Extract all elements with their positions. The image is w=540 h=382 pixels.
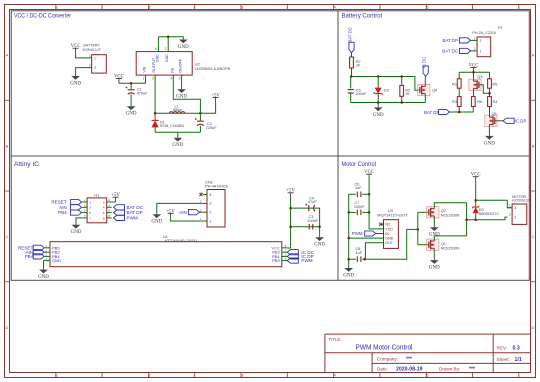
svg-text:D2: D2 (384, 88, 389, 92)
svg-text:VIN: VIN (143, 66, 147, 72)
svg-text:2: 2 (209, 211, 211, 215)
svg-text:220uF: 220uF (206, 126, 217, 130)
svg-text:1: 1 (94, 56, 96, 60)
svg-text:PH-2A_C2319: PH-2A_C2319 (472, 31, 496, 35)
svg-text:P1: P1 (498, 26, 503, 30)
svg-text:LM2596SX-5.0/NOPB: LM2596SX-5.0/NOPB (195, 67, 231, 71)
svg-text:R3: R3 (452, 100, 457, 104)
svg-text:Q3: Q3 (477, 75, 482, 79)
svg-text:0.3: 0.3 (513, 345, 520, 351)
svg-text:GND: GND (343, 273, 354, 278)
svg-text:A: A (532, 53, 535, 58)
svg-text:2K: 2K (356, 64, 361, 68)
svg-text:IC DC: IC DC (422, 57, 427, 69)
svg-text:C: C (532, 234, 535, 239)
svg-text:***: *** (406, 357, 413, 363)
svg-text:Date:: Date: (377, 367, 388, 372)
svg-text:B: B (6, 143, 9, 148)
svg-text:1/1: 1/1 (515, 357, 522, 363)
svg-text:GND: GND (71, 230, 82, 235)
svg-text:A: A (6, 53, 9, 58)
svg-text:Q1: Q1 (441, 242, 446, 246)
svg-text:68um: 68um (173, 108, 183, 112)
svg-text:BAT DP: BAT DP (127, 210, 143, 215)
svg-text:Motor Control: Motor Control (342, 161, 377, 168)
svg-text:Drawn By:: Drawn By: (439, 367, 460, 372)
svg-text:2020-08-19: 2020-08-19 (396, 367, 423, 373)
svg-text:1: 1 (209, 220, 211, 224)
svg-text:GND: GND (126, 112, 137, 117)
svg-text:HX25003-2P: HX25003-2P (512, 199, 530, 203)
svg-text:IN: IN (385, 232, 389, 236)
svg-text:Q2: Q2 (441, 209, 446, 213)
svg-text:2: 2 (480, 39, 482, 43)
svg-text:MBR0530T1G: MBR0530T1G (479, 212, 500, 216)
svg-text:PB4: PB4 (58, 210, 67, 215)
svg-text:1: 1 (89, 54, 91, 58)
svg-text:R4: R4 (493, 100, 498, 104)
svg-text:OUT: OUT (385, 241, 393, 245)
svg-text:PWM: PWM (301, 258, 312, 263)
svg-text:1K: 1K (405, 92, 410, 96)
svg-text:Battery Control: Battery Control (342, 13, 383, 20)
svg-text:GND: GND (172, 143, 183, 148)
svg-text:NC: NC (385, 223, 391, 227)
svg-text:R5: R5 (493, 82, 498, 86)
svg-text:Q5: Q5 (492, 112, 497, 116)
svg-text:U3: U3 (388, 209, 393, 213)
svg-text:GND: GND (70, 81, 81, 86)
svg-text:PWM: PWM (352, 231, 363, 236)
svg-text:TITLE:: TITLE: (329, 337, 342, 342)
svg-text:BAT DP: BAT DP (424, 110, 440, 115)
svg-text:NCE2030K: NCE2030K (441, 247, 460, 251)
svg-text:C: C (6, 234, 9, 239)
svg-text:BATTERY: BATTERY (83, 42, 100, 47)
svg-text:2: 2 (94, 66, 96, 70)
svg-text:GND: GND (52, 258, 61, 263)
svg-text:1: 1 (509, 204, 511, 208)
svg-text:1: 1 (143, 76, 145, 80)
svg-text:Q4: Q4 (432, 88, 437, 92)
svg-text:1uF: 1uF (356, 251, 363, 255)
svg-text:OUTPUT: OUTPUT (152, 57, 156, 73)
svg-text:2: 2 (509, 213, 511, 217)
svg-text:4: 4 (170, 76, 172, 80)
svg-text:R6: R6 (477, 100, 482, 104)
svg-text:2: 2 (474, 36, 476, 40)
svg-text:PH-4A RHOS: PH-4A RHOS (205, 185, 228, 189)
svg-text:GND: GND (38, 275, 49, 280)
svg-text:5: 5 (179, 76, 181, 80)
svg-text:GND: GND (314, 243, 325, 248)
svg-text:BAT DC: BAT DC (127, 205, 144, 210)
svg-text:Company:: Company: (377, 357, 398, 362)
svg-text:Attiny IC: Attiny IC (14, 161, 39, 168)
svg-text:2: 2 (514, 216, 516, 220)
svg-text:B: B (532, 143, 535, 148)
svg-text:47uF: 47uF (308, 200, 317, 204)
svg-text:SS34_C163891: SS34_C163891 (160, 124, 184, 128)
svg-text:3: 3 (165, 47, 167, 51)
svg-text:PWM: PWM (127, 216, 138, 221)
svg-text:GND: GND (385, 237, 393, 241)
svg-text:GND: GND (178, 45, 189, 50)
svg-text:R1: R1 (452, 82, 457, 86)
svg-text:FB: FB (170, 67, 174, 72)
svg-text:BAT DP: BAT DP (443, 38, 459, 43)
svg-text:1: 1 (480, 50, 482, 54)
svg-text:BAT DC: BAT DC (442, 48, 458, 53)
svg-text:***: *** (469, 367, 476, 373)
svg-text:D: D (6, 325, 9, 330)
svg-text:GND: GND (429, 266, 440, 271)
svg-text:1: 1 (474, 47, 476, 51)
svg-text:470uF: 470uF (137, 91, 148, 95)
svg-text:1uF: 1uF (355, 186, 362, 190)
svg-text:REV:: REV: (497, 345, 508, 350)
svg-text:H1: H1 (94, 193, 99, 197)
svg-text:RESET: RESET (51, 200, 67, 205)
svg-text:100nF: 100nF (307, 219, 318, 223)
svg-text:1: 1 (514, 206, 516, 210)
svg-text:GND: GND (151, 220, 162, 225)
svg-text:PB0: PB0 (272, 258, 280, 263)
svg-text:IC DP: IC DP (515, 119, 527, 124)
svg-text:BAT DC: BAT DC (348, 27, 353, 43)
svg-text:PWM Motor Control: PWM Motor Control (356, 342, 413, 351)
svg-text:6: 6 (155, 47, 157, 51)
svg-text:3: 3 (209, 202, 211, 206)
svg-text:GND: GND (373, 113, 384, 118)
svg-text:NCE2030K: NCE2030K (441, 214, 460, 218)
svg-text:9V290x5.0-2P: 9V290x5.0-2P (83, 48, 102, 52)
svg-text:Sheet:: Sheet: (497, 357, 510, 362)
svg-text:2: 2 (89, 64, 91, 68)
svg-text:MCP1416T-E/OT: MCP1416T-E/OT (377, 213, 408, 217)
svg-text:D: D (532, 325, 535, 330)
svg-text:PB4: PB4 (25, 254, 34, 259)
svg-text:U2: U2 (195, 62, 201, 67)
svg-text:VCC / DC-DC Converter: VCC / DC-DC Converter (14, 13, 72, 20)
svg-text:4: 4 (209, 193, 211, 197)
svg-text:GND: GND (176, 95, 187, 100)
svg-text:GND: GND (165, 54, 169, 62)
svg-text:2: 2 (152, 76, 154, 80)
svg-text:100nF: 100nF (354, 205, 365, 209)
svg-text:AIN: AIN (59, 205, 67, 210)
svg-text:AIN: AIN (179, 210, 187, 215)
svg-text:GND: GND (484, 141, 495, 146)
svg-text:ON/OFF: ON/OFF (179, 58, 183, 72)
svg-text:100nF: 100nF (355, 92, 366, 96)
svg-text:VDD: VDD (385, 227, 393, 231)
